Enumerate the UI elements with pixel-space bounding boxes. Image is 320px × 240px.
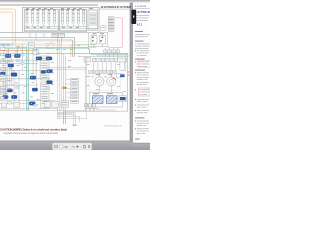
wire: orange/green verticals: [70, 45, 72, 57]
pink box around item: [138, 88, 150, 96]
connectors (blue housings): [0, 54, 52, 105]
right page content: [135, 6, 153, 140]
small pink outline upper: [138, 60, 150, 67]
switch row SW1-SW8: [84, 58, 127, 62]
terminal blocks under pump: [86, 108, 97, 111]
value labels (tiny): [2, 45, 126, 100]
pressure switches PS1 PS2: [95, 77, 104, 86]
solenoid coil terminal caps: [26, 9, 85, 12]
valve unit V1: [88, 26, 108, 47]
wire: drops from switch row: [94, 62, 125, 71]
block tiny labels: [26, 7, 93, 10]
pump unit P1 P2: [89, 93, 122, 107]
node label band (cyan): [0, 44, 13, 46]
svg-text:CAUTION (WIRE) Select it on a: CAUTION (WIRE) Select it on a belt and m…: [0, 128, 67, 132]
header underline right: [99, 8, 130, 11]
wire: left cluster: [0, 44, 58, 109]
connector pins row: [89, 71, 117, 74]
svg-text:A guided wheel and also strong: A guided wheel and also strongest as low…: [3, 132, 58, 135]
svg-text:8.7.1: 8.7.1: [137, 23, 143, 26]
assembly outlines (dashed): [2, 49, 121, 110]
node tag (cyan): [21, 54, 24, 56]
wire: pink pair center: [64, 53, 66, 124]
viewer background top strip: [0, 0, 150, 3]
leader line: [45, 41, 53, 48]
wire: pink lower bus: [0, 103, 33, 105]
wire: teal bus: [0, 48, 128, 54]
page background left: [0, 3, 130, 141]
wire: block internal bus: [24, 23, 98, 30]
wire: light blue dashed: [0, 43, 56, 45]
control panel pin list: [41, 56, 49, 108]
page gap strip: [130, 3, 133, 143]
bottom floating toolbar: [52, 143, 91, 150]
terminal blocks T1-T3: [85, 104, 96, 107]
terminal legend table: [108, 17, 114, 32]
connector row CN10: [104, 50, 120, 53]
header rule left: [0, 4, 98, 7]
wire: pink vertical 2: [125, 53, 127, 72]
wire: pink harness (top right): [108, 18, 122, 48]
wire: lavender: [96, 54, 128, 56]
node tags (cyan): [1, 58, 50, 107]
wire: grey bus right: [78, 56, 128, 58]
list numbers: [134, 50, 137, 129]
connector CN1 CN2: [52, 33, 64, 37]
wire: left bus: [0, 31, 23, 34]
wire: teal vertical pair: [26, 47, 28, 111]
solenoid valve coils SV1-SV11: [26, 11, 96, 26]
peach border outer: [0, 9, 96, 48]
viewer background bottom strip: [0, 141, 130, 150]
wire: bottom harness bundle: [0, 111, 87, 119]
top schematic block: [23, 7, 99, 32]
pin label boxes left: [0, 43, 58, 108]
wire: drops under block: [30, 33, 44, 40]
wire: orange entries: [3, 55, 14, 57]
black sidebar tab: [131, 10, 136, 24]
wire: pink bus: [0, 53, 128, 111]
svg-text:8.7 PTO LINE: 8.7 PTO LINE: [137, 11, 150, 14]
connector pin dots: [4, 55, 49, 104]
wire: center horizontals: [44, 68, 86, 70]
wire: pink drops: [64, 111, 66, 124]
wire: orange feed: [0, 50, 33, 52]
wire: grey bus pair: [0, 38, 75, 58]
svg-text:12 HYDRAULIC SYSTEM: 12 HYDRAULIC SYSTEM: [101, 5, 132, 9]
wire: left margin verticals: [2, 58, 16, 100]
peach border inner: [0, 12, 94, 45]
svg-text:8 SYSTEM: 8 SYSTEM: [135, 6, 146, 8]
connector ladder CN20: [61, 78, 79, 107]
wire: center verticals: [58, 40, 62, 118]
components right margin: [118, 58, 127, 102]
page background right: [133, 3, 150, 143]
svg-text:TB2160-00231-00: TB2160-00231-00: [104, 126, 122, 128]
pin boxes far left: [0, 53, 11, 104]
wire: pale green to valve unit: [75, 42, 97, 45]
splice J1 (orange/green): [62, 87, 64, 89]
